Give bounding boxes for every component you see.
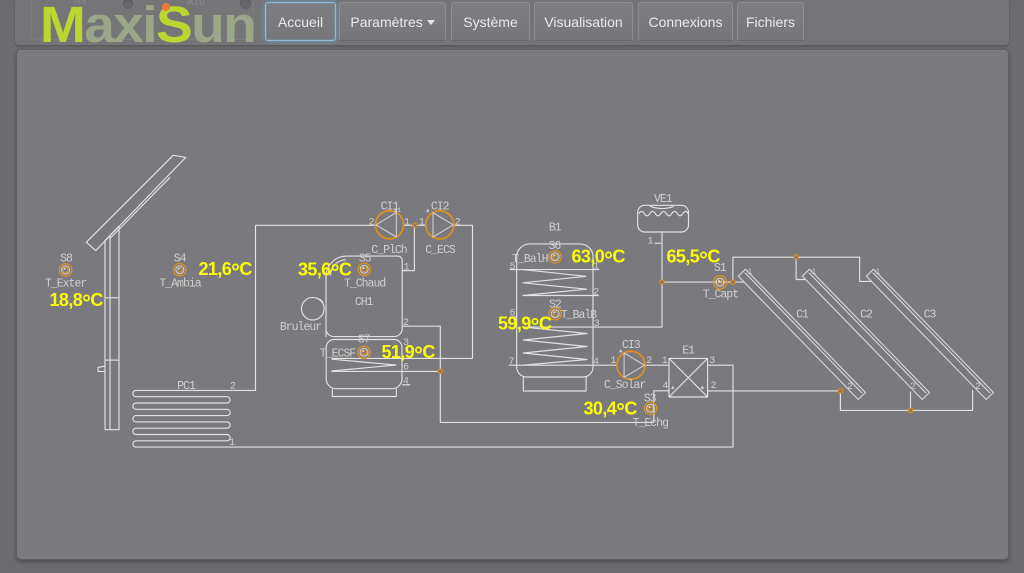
svg-text:S7: S7 [358,334,370,347]
svg-text:C3: C3 [924,309,937,322]
wire CI3 out to E1 pin1 [645,364,669,366]
wire B1 pin5-pin1 coil line [509,269,599,271]
svg-text:T_BalB: T_BalB [561,309,598,322]
pumps [376,211,645,379]
svg-text:7: 7 [508,357,514,368]
svg-text:2: 2 [847,382,853,393]
svg-text:T_Capt: T_Capt [703,288,739,301]
svg-text:T_Exter: T_Exter [45,278,86,291]
svg-text:C_Solar: C_Solar [604,379,645,392]
svg-text:2: 2 [910,382,916,393]
svg-text:VE1: VE1 [654,193,673,206]
svg-text:1: 1 [404,262,410,273]
house wall tick 1 [105,297,119,299]
svg-text:1: 1 [748,268,753,277]
node right of S1 [731,280,735,284]
tank B1 body [517,244,593,377]
wire B1 pin3 right, up to VE1 [527,231,662,327]
svg-text:T_ECSF: T_ECSF [320,347,357,360]
burner flame arc [317,298,324,303]
pump CI3 [617,351,645,379]
node on top collector bus [794,255,798,259]
pump CI2 [426,211,454,239]
sensor S5 [358,263,370,275]
svg-text:30,4°C: 30,4°C [584,399,638,424]
house wall tick 2 [105,359,119,361]
VE1 wavy line [639,211,689,215]
svg-text:T_Ambia: T_Ambia [159,278,201,291]
wire ECS tank pin4 stub [402,384,410,386]
ghost panel behind logo [31,0,254,40]
svg-text:2: 2 [403,318,409,329]
sensors [59,251,726,415]
svg-text:2: 2 [593,288,599,299]
wire B1 pin2 line [523,295,599,297]
wire C2 bottom stub [910,392,912,411]
svg-text:4: 4 [662,381,668,392]
boiler CH1 body [326,256,402,337]
wire B1 pin7-pin4 line into CI3 [509,364,617,366]
pump CI1 [376,211,404,239]
svg-text:▲1: ▲1 [394,207,402,214]
svg-text:▲: ▲ [619,348,623,355]
svg-text:2: 2 [711,381,717,392]
svg-text:1: 1 [812,268,817,277]
wire S1 horizontal to collector C1 [662,281,744,283]
VE1 top surface arc [650,206,674,208]
house roof band [86,155,186,250]
svg-text:C_PlCh: C_PlCh [371,244,407,257]
wire ECS coil bottom to junction [332,370,441,372]
svg-text:CH1: CH1 [355,296,374,309]
wire between pumps CI1-CI2 [403,224,426,226]
E1 diagonal 2 [669,358,708,397]
svg-text:▲: ▲ [671,384,675,391]
sensor S7 [358,346,370,358]
header bar [15,0,1009,45]
ECS tank pedestal [332,389,396,397]
house wall band [105,226,119,430]
wire C2 top stub [796,257,805,279]
boiler inner corner arc [331,260,347,276]
wire B1 pin6 stub [510,316,517,318]
expansion vessel VE1 body [638,205,689,232]
ECS tank body [326,340,402,389]
temperature values [50,247,721,424]
svg-text:S8: S8 [60,253,73,266]
svg-text:1: 1 [662,356,668,367]
svg-text:C2: C2 [860,309,873,322]
svg-text:E1: E1 [682,345,695,358]
logo MaxiSun [40,0,255,54]
svg-text:1: 1 [229,438,235,449]
svg-text:T_Chaud: T_Chaud [344,278,385,291]
heat exchanger E1 box [669,358,708,397]
svg-text:2: 2 [975,382,981,393]
svg-text:1: 1 [419,218,425,229]
sensor S8 [59,264,71,276]
svg-text:59,9°C: 59,9°C [498,314,552,339]
wire CI2 out, down, into ECS tank coil top [332,225,473,358]
collector C2 [802,269,929,399]
svg-text:2: 2 [646,356,652,367]
house wall inner line [109,236,111,430]
ECS tank coil zigzag [332,359,396,371]
tank B1 pedestal [523,377,586,391]
sensor S1 [713,276,726,289]
svg-text:1: 1 [610,356,616,367]
svg-text:1: 1 [647,237,653,248]
collector C1 [738,269,865,399]
wire boiler pin1 up to junction [402,225,414,270]
house wall notch [98,366,105,371]
svg-text:CI2: CI2 [431,201,450,214]
tank B1 bottom coil zigzag [523,327,587,365]
svg-text:S3: S3 [644,393,657,406]
svg-text:2: 2 [455,218,461,229]
sensor S2 [549,308,561,320]
collector C3 [866,269,993,399]
svg-text:CI3: CI3 [622,339,641,352]
sensor S6 [549,251,561,263]
wire top collector bus with C3 drop [733,257,871,282]
svg-text:5: 5 [509,262,515,273]
svg-text:4: 4 [403,377,409,388]
svg-text:3: 3 [709,356,715,367]
sensor S4 [174,264,186,276]
svg-text:3: 3 [594,319,600,330]
svg-text:C_ECS: C_ECS [425,244,456,257]
svg-text:1: 1 [876,268,881,277]
sensor S3 [644,402,656,414]
wire E1 pin2 right to collectors bottom bus, up to C3 pin2 [708,390,973,410]
node on VE1 drop [660,280,664,284]
tank B1 top coil zigzag [523,270,587,296]
svg-text:4: 4 [593,357,599,368]
node below ECS tank [438,369,442,373]
svg-text:S5: S5 [359,253,372,266]
svg-text:▲: ▲ [701,384,705,391]
house roof accent line [110,177,170,238]
svg-text:C1: C1 [796,309,809,322]
svg-text:65,5°C: 65,5°C [667,247,721,272]
svg-text:2: 2 [368,218,374,229]
node between CI1/CI2 [413,223,417,227]
wire boiler pin2 right,down,right,up to E1 pin4 [402,326,669,422]
svg-text:T_Echg: T_Echg [633,417,669,430]
orange dot of i [162,3,170,11]
E1 diagonal 1 [669,358,708,397]
svg-text:▲: ▲ [426,207,430,214]
node at C1 bottom [838,389,842,393]
svg-text:1: 1 [404,218,410,229]
wire PC1 serpentine + bottom bus + up to E1 pin3 [133,225,733,447]
svg-text:S6: S6 [548,240,561,253]
svg-text:6: 6 [403,363,409,374]
svg-text:2: 2 [230,382,236,393]
burner circle [302,297,325,320]
svg-text:PC1: PC1 [177,380,196,393]
svg-text:Bruleur: Bruleur [280,321,321,334]
nav tabs [265,2,336,41]
svg-text:21,6°C: 21,6°C [199,259,253,284]
node below C2 [908,408,912,412]
svg-text:S4: S4 [174,253,187,266]
svg-text:18,8°C: 18,8°C [50,290,104,315]
svg-text:B1: B1 [549,221,562,234]
junction nodes (orange) [413,223,913,412]
VE1 pin1 underline [655,242,662,244]
svg-text:T_BalH: T_BalH [512,253,548,266]
wire left loop: top bus into pump CI1 [256,224,376,226]
